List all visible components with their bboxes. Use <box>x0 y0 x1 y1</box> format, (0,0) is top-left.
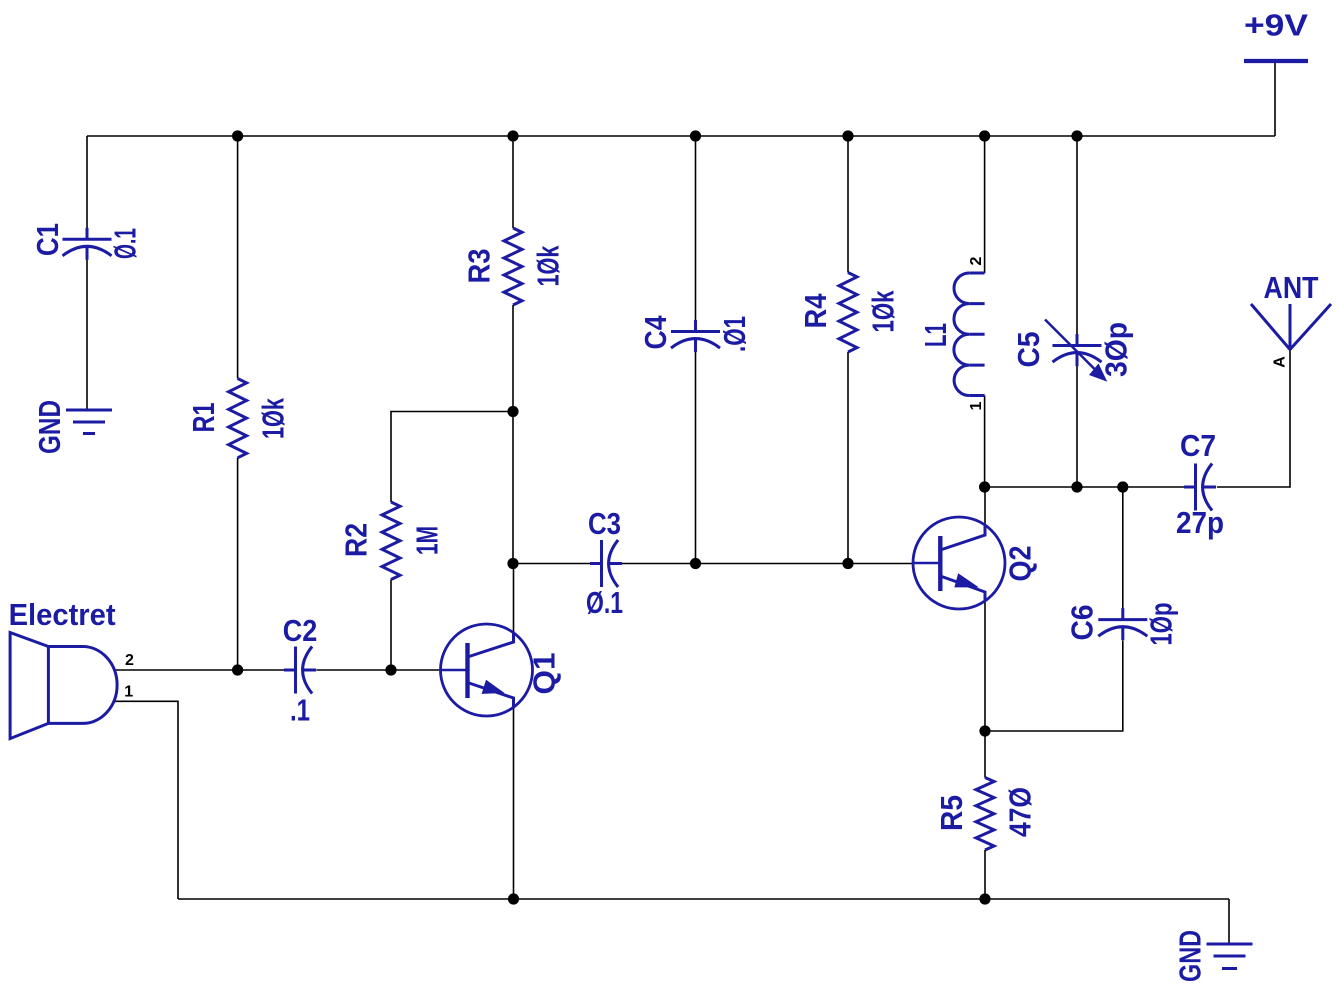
svg-text:2: 2 <box>125 652 134 669</box>
svg-text:.Ø1: .Ø1 <box>717 316 752 352</box>
junction: L1 / top rail <box>979 130 990 141</box>
wire: R2 top horizontal to R3 node <box>391 412 513 503</box>
transistor Q1 base lead <box>442 669 468 672</box>
wire: bottom ground rail <box>178 898 1229 900</box>
capacitor C3 (0.1) <box>590 540 622 587</box>
svg-text:27p: 27p <box>1176 505 1224 540</box>
variable capacitor C5 (30p) plates <box>1053 334 1102 366</box>
svg-text:C3: C3 <box>588 506 621 541</box>
capacitor C6 (10p) <box>1098 608 1147 640</box>
svg-text:1Øp: 1Øp <box>1144 603 1179 646</box>
wire: R4 bottom <box>847 352 849 564</box>
wire: mic pin1 down to bottom rail <box>114 701 178 899</box>
svg-text:Ø.1: Ø.1 <box>108 228 143 259</box>
junction: C4 / C3 rail <box>690 558 701 569</box>
svg-text:47Ø: 47Ø <box>1003 787 1038 837</box>
wire: +9V power rail top <box>87 135 1275 137</box>
junction: Q2 emitter / C6 / R5 node <box>979 725 990 736</box>
junction: R3 / top rail <box>507 130 518 141</box>
electret microphone dome <box>48 647 117 724</box>
wire: C5 bottom lead <box>1076 366 1078 487</box>
svg-text:1: 1 <box>968 401 985 410</box>
junction: R1 / mic line <box>232 664 243 675</box>
svg-text:R1: R1 <box>186 403 221 433</box>
wire: L1 bottom lead to tank rail <box>984 396 986 488</box>
svg-text:L1: L1 <box>918 323 953 347</box>
svg-text:R3: R3 <box>462 249 497 284</box>
wire: R4 top <box>847 136 849 273</box>
junction: C6 / tank rail <box>1117 481 1128 492</box>
svg-text:1: 1 <box>124 684 133 701</box>
capacitor C7 (27p) <box>1184 464 1216 511</box>
variable capacitor C5 arrow <box>1045 320 1099 374</box>
svg-text:.1: .1 <box>290 693 310 728</box>
wire: R3 top <box>512 136 514 228</box>
svg-text:1Øk: 1Øk <box>866 290 901 333</box>
wire: C4 bottom <box>695 352 697 564</box>
power symbol +9V bar <box>1244 59 1308 63</box>
wire: R1 top <box>237 136 239 379</box>
ground GND (left, below C1) <box>66 410 112 434</box>
svg-text:Ø.1: Ø.1 <box>586 585 623 620</box>
junction: C4 / top rail <box>690 130 701 141</box>
svg-text:GND: GND <box>1173 930 1208 982</box>
transistor Q1 circle <box>441 624 533 716</box>
capacitor C4 (.01) <box>671 320 720 352</box>
svg-text:1Øk: 1Øk <box>256 397 291 439</box>
svg-text:C4: C4 <box>638 315 673 350</box>
svg-text:C5: C5 <box>1011 332 1046 368</box>
junction: R4 / top rail <box>842 130 853 141</box>
svg-text:R4: R4 <box>798 293 833 329</box>
junction: C5 / top rail <box>1071 130 1082 141</box>
svg-text:C1: C1 <box>30 223 65 256</box>
wire: R1 bottom to mic node <box>237 458 239 670</box>
wire: +9V symbol drop to rail <box>1274 63 1276 136</box>
svg-text:R5: R5 <box>934 795 969 831</box>
wire: L1 top lead <box>984 136 986 273</box>
svg-text:C7: C7 <box>1180 428 1216 463</box>
wire: Q1 collector riser <box>513 564 515 633</box>
wire: C4 top <box>695 136 697 321</box>
wire: C1 bottom to GND <box>86 259 88 410</box>
inductor L1 coil arcs <box>954 273 969 396</box>
svg-text:2: 2 <box>968 256 985 265</box>
wire: C5 top lead <box>1076 136 1078 334</box>
junction: R5 / bottom rail <box>979 893 990 904</box>
transistor Q1 base bar <box>465 643 469 698</box>
svg-text:C2: C2 <box>283 613 318 648</box>
wire: C7 to antenna riser <box>1217 350 1290 488</box>
svg-text:+9V: +9V <box>1244 8 1308 43</box>
junction: R2 / Q1 base line <box>385 664 396 675</box>
svg-text:GND: GND <box>32 400 67 454</box>
wire: tank rail to C7 <box>985 486 1184 488</box>
wire: R2 bottom to base node <box>390 580 392 671</box>
junction: R2 / R3 node <box>507 406 518 417</box>
transistor Q2 base bar <box>938 536 942 591</box>
wire: Q2 collector riser <box>984 487 986 528</box>
wire: R5 bottom <box>984 850 986 899</box>
transistor Q1 collector <box>468 632 514 657</box>
transistor Q2 circle <box>913 517 1005 609</box>
ground GND (bottom right) <box>1207 944 1253 969</box>
junction: C5 / tank rail <box>1071 481 1082 492</box>
transistor Q1 emitter <box>468 683 514 709</box>
svg-text:R2: R2 <box>339 523 374 557</box>
transistor Q2 emitter <box>940 576 985 602</box>
resistor R1 (10k) <box>229 379 247 458</box>
transistor Q2 base lead <box>914 562 940 565</box>
wire: C3 rail right segment to Q2 base <box>621 563 914 565</box>
transistor Q2 emitter arrow <box>955 574 977 587</box>
junction: R4 / C3 rail <box>842 558 853 569</box>
variable capacitor C5 arrowhead <box>1090 364 1107 380</box>
svg-text:1Øk: 1Øk <box>531 245 566 287</box>
junction: Q1 emitter / bottom rail <box>508 893 519 904</box>
capacitor C2 (.1) <box>284 647 316 694</box>
resistor R5 (470) <box>976 778 994 851</box>
svg-text:Q1: Q1 <box>527 653 562 695</box>
svg-text:3Øp: 3Øp <box>1099 322 1134 377</box>
wire: C6 bottom to emitter node <box>985 641 1123 732</box>
wire: bottom rail to GND symbol <box>1228 899 1230 944</box>
wire: Q1 emitter drop to bottom rail <box>513 702 515 899</box>
wire: R5 top <box>984 731 986 778</box>
capacitor C1 (0.1) <box>63 228 112 260</box>
svg-text:Electret: Electret <box>9 597 116 632</box>
resistor R3 (10k) <box>504 228 522 305</box>
junction: L1-Q2 collector / tank rail <box>979 481 990 492</box>
junction: Q1 collector / C3 rail <box>507 558 518 569</box>
resistor R4 (10k) <box>839 273 857 353</box>
wire: C6 top lead <box>1122 487 1124 610</box>
inductor L1 pin stubs <box>969 273 984 396</box>
wire: Q2 emitter drop <box>984 598 986 731</box>
resistor R2 (1M) <box>382 502 400 580</box>
wire: C2 to Q1 base <box>317 669 444 671</box>
svg-text:ANT: ANT <box>1264 270 1319 305</box>
svg-text:Q2: Q2 <box>1003 546 1038 582</box>
svg-text:A: A <box>1272 356 1289 368</box>
electret microphone cone (trapezoid) <box>10 633 48 739</box>
antenna ANT <box>1251 304 1331 350</box>
wire: C3 rail left segment <box>513 563 590 565</box>
wire: mic pin2 to C2 <box>115 669 285 671</box>
wire: R3 bottom through node to C3 rail <box>512 305 514 564</box>
wire: C1 top lead to rail <box>86 136 88 228</box>
svg-text:C6: C6 <box>1065 605 1100 641</box>
transistor Q2 collector <box>940 525 985 551</box>
junction: R1 / top rail <box>232 130 243 141</box>
transistor Q1 emitter arrow <box>482 681 503 694</box>
svg-text:1M: 1M <box>410 526 445 555</box>
